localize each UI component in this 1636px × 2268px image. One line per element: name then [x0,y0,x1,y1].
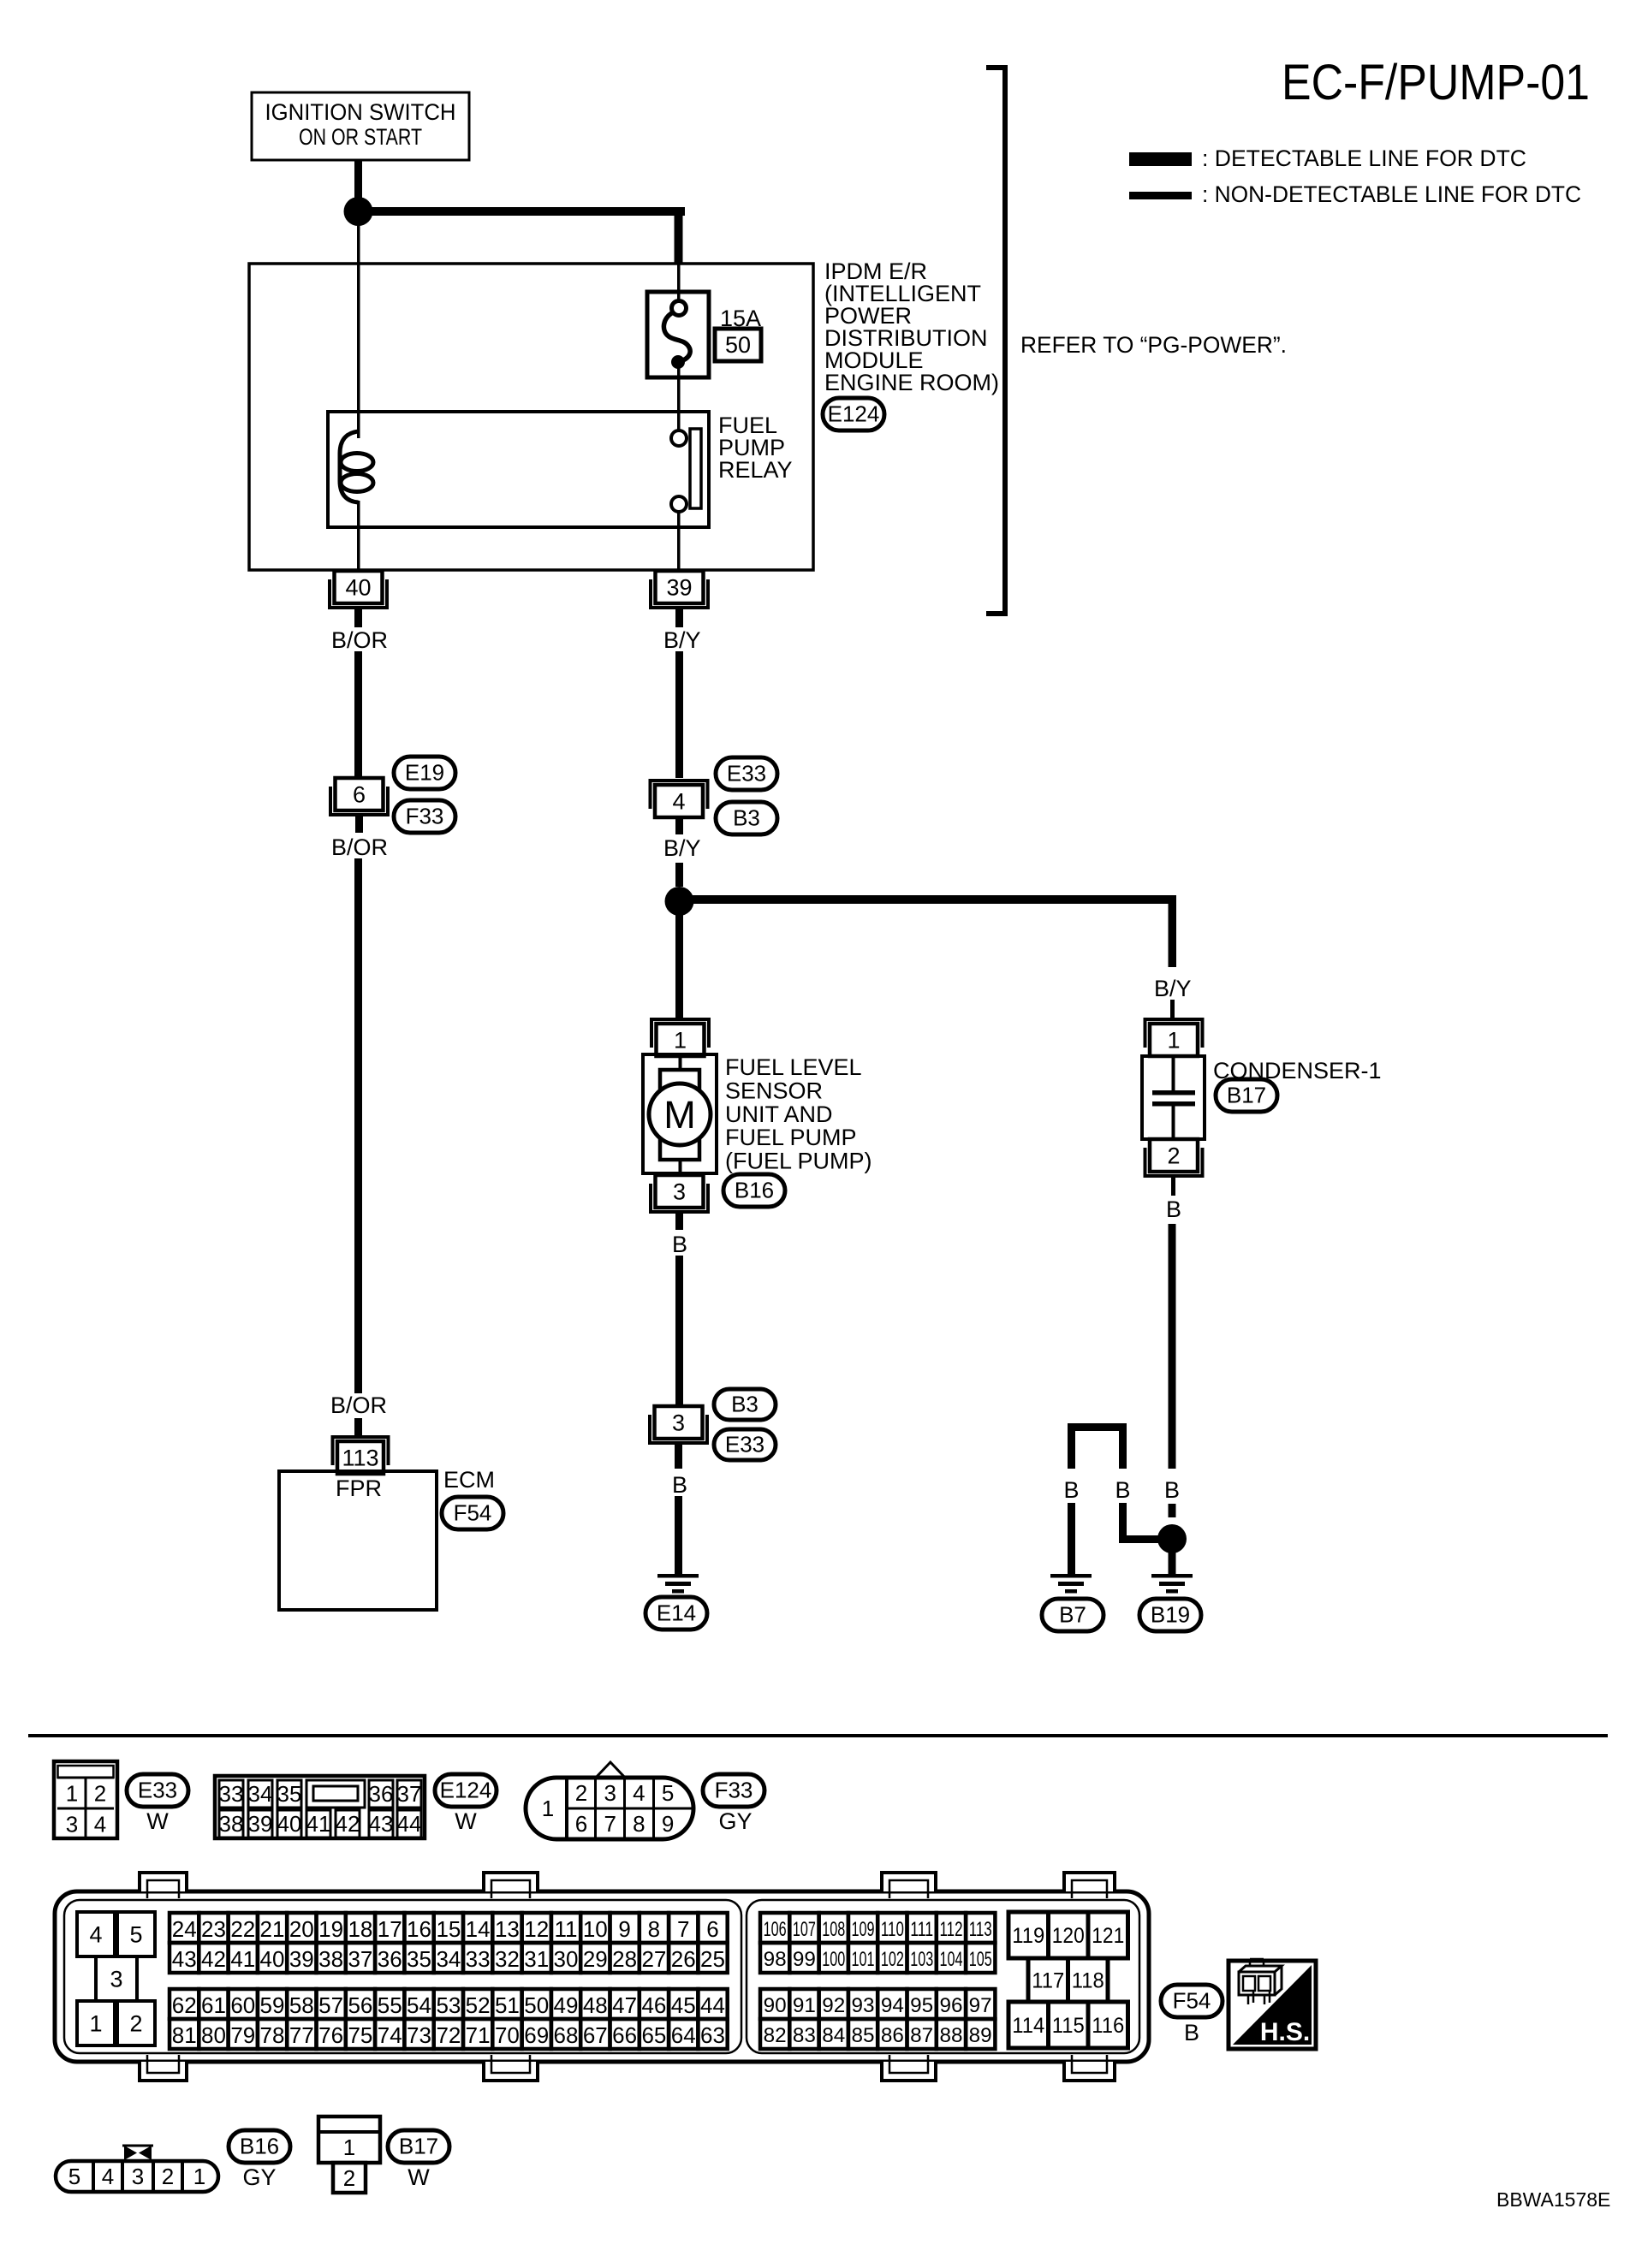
svg-text:3: 3 [66,1811,78,1837]
svg-text:3: 3 [110,1966,122,1992]
svg-text:M: M [663,1093,696,1137]
svg-text:71: 71 [466,2022,491,2048]
svg-text:19: 19 [318,1916,343,1942]
svg-text:105: 105 [969,1948,992,1971]
relay contact bottom [671,496,687,512]
connector label E124 [823,398,884,430]
wire stub below pin 39 [675,609,683,627]
svg-text:B16: B16 [240,2134,279,2159]
junction node C (ground splice) [1157,1524,1187,1553]
svg-text:2: 2 [575,1780,587,1806]
svg-text:W: W [408,2164,430,2190]
jumper right leg [1119,1423,1127,1469]
svg-text:97: 97 [969,1994,992,2017]
svg-text:B7: B7 [1059,1602,1086,1628]
connector detail F33 [595,1762,626,1778]
left leg wire to ground B7 [1068,1503,1075,1575]
svg-text:93: 93 [852,1994,875,2017]
wire junction C to ground B19 [1169,1539,1176,1575]
svg-text:3: 3 [604,1780,616,1806]
ECM connector detail outline [55,1891,1149,2062]
fuel pump relay box [328,412,709,527]
connector label E33 lower [714,1429,776,1460]
svg-text:50: 50 [524,1992,549,2018]
svg-text:W: W [455,1808,477,1834]
svg-text:9: 9 [662,1811,674,1837]
inline connector 6 (E19/F33) [336,778,384,810]
svg-text:88: 88 [940,2024,963,2047]
svg-text:49: 49 [554,1992,579,2018]
thin stub below condenser connector 2 [1171,1178,1175,1196]
svg-text:F33: F33 [715,1778,753,1803]
ECM detail key block [77,1912,115,1956]
svg-text:40: 40 [277,1811,302,1837]
relay contact bar [690,429,701,508]
svg-text:42: 42 [201,1946,226,1972]
connector label B16 [723,1174,785,1207]
ground B19 [1151,1574,1193,1578]
inline connector 3 (B3/E33) [655,1406,703,1439]
svg-text:GY: GY [718,1808,752,1834]
svg-text:46: 46 [641,1992,666,2018]
wire fuse to relay contact [677,366,681,430]
svg-text:22: 22 [230,1916,255,1942]
thin stub above condenser connector [1170,1000,1175,1018]
bracket [986,68,1005,614]
svg-text:113: 113 [969,1918,992,1941]
svg-text:70: 70 [495,2022,520,2048]
jumper left leg [1068,1423,1075,1469]
pump inner rect [660,1070,699,1160]
long wire B/OR down to ECM [354,858,362,1393]
svg-text:39: 39 [248,1811,273,1837]
svg-text:81: 81 [172,2022,197,2048]
svg-text:B: B [672,1472,687,1498]
wire stub below pin 40 [354,609,362,627]
connector label B3 lower [714,1389,776,1420]
IPDM pin 40 connector [335,571,383,603]
relay coil [340,431,359,502]
svg-text:B/OR: B/OR [331,627,388,653]
relay contact top [671,430,687,446]
wire B down to inline connector 3 [675,1256,683,1406]
svg-text:101: 101 [852,1948,875,1971]
IPDM pin 39 connector [656,571,704,603]
svg-text:110: 110 [881,1918,904,1941]
svg-text:17: 17 [378,1916,402,1942]
svg-text:8: 8 [633,1811,645,1837]
svg-text:UNIT AND: UNIT AND [725,1101,833,1127]
svg-text:37: 37 [397,1781,422,1807]
svg-text:21: 21 [260,1916,285,1942]
svg-text:40: 40 [345,574,371,600]
svg-text:28: 28 [612,1946,637,1972]
svg-text:5: 5 [68,2164,80,2189]
svg-text:43: 43 [369,1811,394,1837]
svg-text:58: 58 [289,1992,314,2018]
svg-text:103: 103 [910,1948,933,1971]
branch wire to condenser: horizontal [685,895,1176,904]
svg-text:B19: B19 [1151,1602,1190,1628]
svg-text:52: 52 [466,1992,491,2018]
svg-text:59: 59 [260,1992,285,2018]
svg-text:6: 6 [575,1811,587,1837]
svg-text:100: 100 [822,1948,845,1971]
svg-text:E33: E33 [138,1778,177,1803]
svg-text:11: 11 [555,1916,578,1942]
svg-text:4: 4 [102,2164,114,2189]
svg-text:85: 85 [852,2024,875,2047]
svg-text:121: 121 [1092,1924,1124,1948]
svg-text:: NON-DETECTABLE LINE FOR DTC: : NON-DETECTABLE LINE FOR DTC [1202,181,1581,207]
ground B7 [1050,1574,1092,1578]
connector label F33 [394,800,455,833]
svg-text:8: 8 [648,1916,660,1942]
svg-text:16: 16 [407,1916,431,1942]
svg-text:87: 87 [910,2024,933,2047]
svg-text:B: B [1166,1196,1181,1222]
wire stub below inline connector 3 [675,1444,682,1469]
wire B/OR to connector 6 [354,651,362,778]
svg-text:B3: B3 [733,805,760,831]
ECM pin 113 connector [337,1441,384,1474]
svg-text:72: 72 [436,2022,461,2048]
svg-text:102: 102 [881,1948,904,1971]
svg-text:18: 18 [348,1916,372,1942]
svg-text:(FUEL PUMP): (FUEL PUMP) [725,1149,872,1174]
svg-text:E124: E124 [440,1778,492,1803]
ECM detail tab top [1064,1873,1115,1891]
svg-text:1: 1 [1167,1027,1180,1053]
svg-text:4: 4 [94,1811,106,1837]
ECM box [279,1471,437,1610]
connector label E19 [394,757,455,789]
wire junction to fuse branch horizontal [358,207,685,216]
svg-text:E33: E33 [725,1432,764,1458]
svg-text:5: 5 [662,1780,674,1806]
svg-text:ON OR START: ON OR START [299,124,422,150]
svg-text:67: 67 [583,2022,608,2048]
svg-text:B16: B16 [735,1178,774,1203]
svg-text:47: 47 [612,1992,637,2018]
svg-text:86: 86 [881,2024,904,2047]
wire dash above junction B [675,863,683,887]
svg-text:36: 36 [369,1781,394,1807]
svg-text:74: 74 [378,2022,402,2048]
ECM detail right pin grid [760,1913,789,1943]
IPDM E/R box [249,264,813,570]
svg-text:51: 51 [495,1992,520,2018]
detail label B17 [388,2130,449,2163]
svg-text:4: 4 [633,1780,645,1806]
svg-text:50: 50 [725,332,751,358]
fuel pump connector pin 3 [656,1175,704,1208]
connector label B3 [716,802,777,834]
svg-text:95: 95 [910,1994,933,2017]
svg-text:B/OR: B/OR [330,1392,387,1418]
svg-text:1: 1 [343,2134,355,2160]
svg-text:104: 104 [940,1948,963,1971]
svg-text:30: 30 [554,1946,579,1972]
svg-text:77: 77 [289,2022,314,2048]
svg-text:25: 25 [700,1946,725,1972]
wire stub below pump connector 3 [675,1213,683,1230]
svg-text:31: 31 [524,1946,549,1972]
ECM detail tab bottom [882,2062,936,2081]
svg-text:76: 76 [318,2022,343,2048]
svg-text:29: 29 [583,1946,608,1972]
svg-text:107: 107 [793,1918,816,1941]
svg-text:111: 111 [910,1918,933,1941]
svg-text:F33: F33 [406,804,444,829]
ECM detail left pin grid [170,1913,199,1943]
wire coil to IPDM bottom [357,501,360,570]
svg-text:66: 66 [612,2022,637,2048]
wire ignition switch to junction [354,160,362,211]
svg-text:92: 92 [822,1994,845,2017]
svg-text:B/Y: B/Y [663,835,701,861]
svg-text:2: 2 [94,1780,106,1806]
svg-text:57: 57 [318,1992,343,2018]
wire B to ground E14 [675,1496,682,1575]
svg-text:34: 34 [436,1946,461,1972]
svg-text:B: B [1063,1477,1079,1503]
H.S. connector icon [1239,1959,1282,2004]
svg-text:14: 14 [466,1916,491,1942]
svg-text:44: 44 [397,1811,422,1837]
B16 keying mark [124,2146,137,2160]
svg-text:75: 75 [348,2022,372,2048]
condenser connector pin 1 [1150,1024,1198,1056]
svg-text:24: 24 [172,1916,197,1942]
fuel pump connector pin 1 [657,1024,705,1056]
svg-text:EC-F/PUMP-01: EC-F/PUMP-01 [1282,55,1590,110]
svg-text:23: 23 [201,1916,226,1942]
svg-text:54: 54 [407,1992,431,2018]
ECM detail tab bottom [484,2062,538,2081]
svg-text:1: 1 [674,1027,687,1053]
legend non-detectable line bar [1129,192,1192,199]
svg-text:4: 4 [672,788,685,814]
connector detail E124 [215,1776,425,1838]
svg-text:E14: E14 [657,1600,696,1626]
H.S. badge [1233,1965,1312,2045]
connector label E33 [716,757,777,790]
svg-text:96: 96 [940,1994,963,2017]
svg-text:33: 33 [466,1946,491,1972]
svg-text:35: 35 [407,1946,431,1972]
svg-text:40: 40 [260,1946,285,1972]
svg-text:B: B [1115,1477,1130,1503]
svg-text:B/Y: B/Y [663,627,701,653]
wire into pump motor [679,1054,682,1072]
fuel pump outer box [643,1054,717,1173]
svg-text:1: 1 [66,1780,78,1806]
svg-text:34: 34 [248,1781,273,1807]
svg-text:7: 7 [677,1916,689,1942]
jumper n-shape top bar [1068,1423,1127,1431]
svg-text:12: 12 [524,1916,549,1942]
svg-text:4: 4 [89,1921,102,1947]
connector detail B17 [318,2117,380,2163]
detail label F33 [703,1774,764,1807]
svg-text:SENSOR: SENSOR [725,1078,823,1103]
svg-text:FUEL PUMP: FUEL PUMP [725,1125,857,1150]
svg-text:32: 32 [495,1946,520,1972]
svg-text:113: 113 [342,1445,378,1470]
svg-text:9: 9 [618,1916,630,1942]
svg-text:69: 69 [524,2022,549,2048]
detail label B16 [229,2130,290,2163]
svg-text:36: 36 [378,1946,402,1972]
wire stub below connector 6 [355,816,363,833]
svg-text:BBWA1578E: BBWA1578E [1496,2188,1610,2211]
svg-text:10: 10 [583,1916,608,1942]
svg-text:5: 5 [129,1921,142,1947]
svg-text:118: 118 [1072,1969,1104,1993]
svg-text:GY: GY [242,2164,276,2190]
svg-text:63: 63 [700,2022,725,2048]
svg-text:B17: B17 [1227,1083,1266,1108]
svg-text:41: 41 [230,1946,255,1972]
corner horizontal to junction C [1119,1535,1160,1543]
svg-text:117: 117 [1032,1969,1064,1993]
svg-text:68: 68 [554,2022,579,2048]
ECM detail tab top [882,1873,936,1891]
svg-text:112: 112 [940,1918,963,1941]
svg-text:90: 90 [764,1994,787,2017]
svg-text:89: 89 [969,2024,992,2047]
svg-text:55: 55 [378,1992,402,2018]
inline connector 4 (E33/B3) [655,785,703,817]
ground label B7 [1042,1599,1104,1631]
svg-text:120: 120 [1052,1924,1085,1948]
right leg wire to corner [1119,1503,1127,1543]
svg-text:78: 78 [260,2022,285,2048]
svg-text:2: 2 [343,2165,355,2191]
svg-text:F54: F54 [454,1500,492,1526]
svg-text:E124: E124 [828,401,880,427]
svg-text:B/Y: B/Y [1154,976,1192,1001]
svg-text:27: 27 [641,1946,666,1972]
detail label E124 [435,1774,497,1807]
svg-text:3: 3 [132,2164,144,2189]
svg-text:37: 37 [348,1946,372,1972]
svg-text:35: 35 [277,1781,302,1807]
svg-text:W: W [146,1808,169,1834]
svg-text:E33: E33 [727,761,766,787]
wire stub below connector 4 [675,817,683,834]
svg-text:1: 1 [193,2164,205,2189]
svg-text:94: 94 [881,1994,904,2017]
svg-text:114: 114 [1012,2014,1044,2038]
condenser connector pin 2 [1150,1139,1198,1172]
svg-text:43: 43 [172,1946,197,1972]
wire junction down into IPDM to relay coil [357,211,360,438]
svg-text:39: 39 [666,574,692,600]
svg-text:REFER TO “PG-POWER”.: REFER TO “PG-POWER”. [1020,332,1287,358]
svg-text:64: 64 [671,2022,696,2048]
svg-text:IGNITION SWITCH: IGNITION SWITCH [265,99,456,125]
ECM detail tab top [140,1873,187,1891]
svg-text:33: 33 [219,1781,244,1807]
capacitor symbol [1172,1056,1175,1090]
ground E14 [657,1574,699,1578]
wire stub above ECM pin 113 [354,1418,362,1436]
svg-text:73: 73 [407,2022,431,2048]
fuse symbol [672,301,687,316]
ground label B19 [1139,1599,1201,1631]
fuse number 50 box [715,329,761,361]
svg-text:1: 1 [542,1796,554,1821]
svg-text:82: 82 [764,2024,787,2047]
ECM detail tab bottom [140,2062,187,2081]
wire motor to pump bottom [679,1160,682,1174]
svg-text:ECM: ECM [443,1467,495,1493]
svg-text:56: 56 [348,1992,372,2018]
svg-text:H.S.: H.S. [1260,2018,1310,2046]
svg-text:48: 48 [583,1992,608,2018]
svg-text:98: 98 [764,1948,787,1971]
svg-text:13: 13 [495,1916,520,1942]
svg-text:115: 115 [1052,2014,1085,2038]
svg-text:2: 2 [162,2164,174,2189]
wire junction B to fuel pump connector [675,901,683,1018]
junction node B (fuel pump splice) [665,887,694,916]
connector detail B16 [56,2161,218,2192]
svg-text:B: B [1164,1477,1180,1503]
svg-text:B: B [1184,2020,1199,2045]
svg-text:83: 83 [793,2024,816,2047]
detail label F54 [1161,1985,1223,2017]
svg-text:60: 60 [230,1992,255,2018]
svg-text:: DETECTABLE LINE FOR DTC: : DETECTABLE LINE FOR DTC [1202,145,1526,171]
detail label E33 [127,1774,188,1807]
ignition switch box [252,92,469,160]
svg-text:44: 44 [700,1992,725,2018]
svg-text:38: 38 [219,1811,244,1837]
svg-text:45: 45 [671,1992,696,2018]
svg-text:38: 38 [318,1946,343,1972]
svg-text:42: 42 [336,1811,360,1837]
condenser wire dash [1169,1504,1176,1517]
connector label F54 [442,1497,503,1529]
svg-text:2: 2 [129,2010,142,2036]
connector label B17 [1216,1079,1277,1112]
motor circle M [649,1084,711,1145]
wire B/Y to connector 4 [675,651,683,778]
svg-text:79: 79 [230,2022,255,2048]
svg-text:65: 65 [641,2022,666,2048]
wire IPDM top to fuse [677,264,681,302]
svg-text:3: 3 [673,1179,686,1204]
svg-text:6: 6 [706,1916,718,1942]
wire fuse branch vertical into IPDM [675,207,683,264]
svg-text:20: 20 [289,1916,314,1942]
ECM detail power pins [1008,1912,1049,1958]
ground label E14 [645,1597,707,1630]
svg-text:FUEL LEVEL: FUEL LEVEL [725,1054,862,1080]
svg-text:91: 91 [793,1994,816,2017]
svg-text:119: 119 [1012,1924,1044,1948]
svg-text:41: 41 [306,1811,331,1837]
fuse 15A box [647,292,709,377]
svg-text:1: 1 [89,2010,102,2036]
legend detectable line bar [1129,152,1192,166]
svg-text:99: 99 [793,1948,816,1971]
svg-text:39: 39 [289,1946,314,1972]
svg-text:ENGINE ROOM): ENGINE ROOM) [824,370,999,395]
